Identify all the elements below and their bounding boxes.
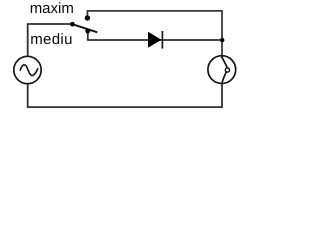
AC source G1 circle <box>14 56 41 83</box>
AC source sine symbol <box>20 65 38 76</box>
wire: AC source top to switch pole (left vertical + horizontal feed) <box>28 24 73 56</box>
diode D1 cathode bar <box>161 31 163 49</box>
lamp filament curve upper <box>221 56 227 68</box>
svg-text:maxim: maxim <box>30 0 74 17</box>
switch lower contact dot (mediu) <box>85 29 90 34</box>
lamp L1 circle <box>208 56 236 84</box>
diode D1 triangle <box>148 32 162 48</box>
lamp filament small loop <box>225 68 229 72</box>
wire: lamp bottom, bottom return wire, AC source bottom <box>28 84 222 108</box>
svg-text:mediu: mediu <box>30 31 73 48</box>
switch lever (pole to lower contact, mediu position) <box>72 24 97 32</box>
junction node dot <box>220 38 224 42</box>
switch pole dot <box>70 22 75 27</box>
lamp filament curve lower <box>222 72 226 84</box>
switch top contact dot (maxim) <box>85 15 90 20</box>
wire: top contact up and across top to right side down to lamp <box>87 11 222 56</box>
wire: lower contact down and mediu branch right to node <box>88 31 222 40</box>
